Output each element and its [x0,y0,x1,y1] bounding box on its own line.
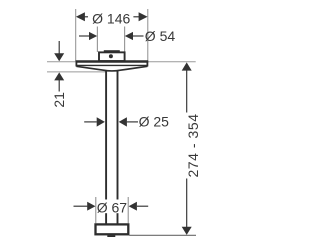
dimension D146 line and arrows [76,12,148,21]
svg-text:274 - 354: 274 - 354 [185,113,201,177]
top cap body [99,52,125,61]
dimension D25 label [139,114,170,130]
ceiling plate flange [76,61,149,71]
extension line bottom of dimension D274 [129,234,196,236]
top cap screw dot [109,54,113,58]
dimension 21 line and arrows [54,41,64,92]
svg-text:Ø 25: Ø 25 [139,114,170,130]
svg-text:21: 21 [51,92,67,108]
extension line left of dimension D54 [96,27,98,53]
top cap lip [104,50,120,53]
dimension D54 label [145,28,176,44]
pipe (vertical supply tube) [106,70,117,224]
bottom outlet cap [96,224,129,237]
dimension D67 label [97,199,128,215]
dimension D274-354 line and arrows [182,62,192,235]
ceiling reference line A [47,61,196,63]
plate-bottom reference line B [47,71,106,73]
dimension D67 line and arrows [74,202,149,211]
dimension D25 line and arrows [84,117,138,126]
dimension 21 label [51,92,67,108]
extension line left of dimension D146 [75,9,77,61]
dimension D274-354 label [185,113,201,177]
dimension D54 line and arrows [79,32,144,40]
white mask behind D67 label [97,200,127,214]
svg-text:Ø 146: Ø 146 [92,10,130,26]
extension line right of dimension D54 [124,27,126,53]
extension line right of dimension D146 [147,9,149,61]
extension line right of dimension D67 [127,197,129,223]
svg-text:Ø 67: Ø 67 [97,199,128,215]
svg-text:Ø 54: Ø 54 [145,28,176,44]
dimension D146 label [92,10,130,26]
extension line left of dimension D67 [95,197,97,223]
